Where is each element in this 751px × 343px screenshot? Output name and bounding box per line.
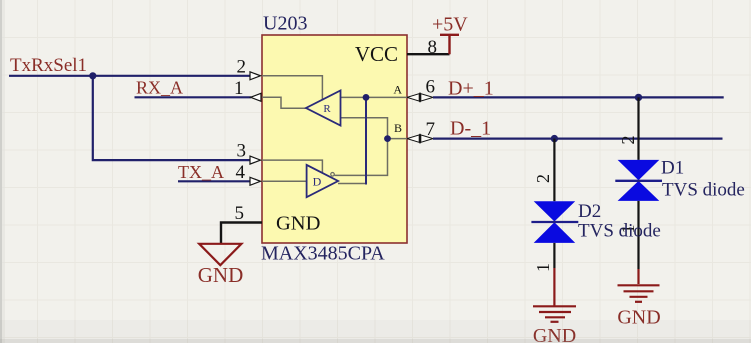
svg-text:R: R — [323, 103, 331, 115]
svg-text:D1: D1 — [661, 158, 684, 179]
svg-text:TVS diode: TVS diode — [662, 180, 745, 201]
pin 2 arrow — [250, 72, 261, 80]
svg-text:D2: D2 — [578, 201, 601, 222]
driver inverted output bubble — [331, 173, 335, 177]
TVS diode D1 symbol — [615, 160, 662, 201]
internal line pin1 to receiver output — [262, 97, 308, 108]
TVS diode D2 symbol — [531, 201, 578, 243]
wire TxRxSel1 — [9, 75, 250, 77]
ground symbol GND (D1) — [618, 285, 660, 302]
svg-text:1: 1 — [234, 78, 244, 99]
power port +5V bar symbol — [440, 35, 459, 54]
junction on TxRxSel1 wire — [89, 72, 96, 79]
pin 8 wire — [407, 53, 450, 55]
IC U203 body — [262, 35, 407, 243]
svg-text:TX_A: TX_A — [178, 162, 224, 182]
internal line receiver B input — [340, 118, 388, 139]
svg-text:6: 6 — [426, 77, 436, 98]
wire D-_1 — [433, 138, 723, 140]
svg-text:4: 4 — [236, 162, 246, 183]
pin 5 wire — [221, 223, 262, 244]
internal line pin4 to driver input — [262, 180, 307, 182]
internal line B to pin 7 — [388, 138, 408, 140]
svg-text:2: 2 — [237, 57, 247, 78]
svg-text:2: 2 — [618, 136, 638, 145]
svg-text:GND: GND — [198, 263, 244, 287]
internal junction B — [384, 135, 391, 142]
svg-text:7: 7 — [426, 119, 436, 140]
svg-text:B: B — [394, 121, 402, 135]
driver triangle D — [307, 165, 339, 197]
internal junction A — [363, 94, 370, 101]
internal line driver output to A — [338, 183, 367, 185]
wire D2 to D- — [553, 139, 555, 202]
internal line pin3 to driver enable — [262, 160, 322, 173]
junction D+ / D1 — [635, 94, 642, 101]
svg-text:+5V: +5V — [432, 14, 468, 36]
svg-text:1: 1 — [533, 263, 553, 272]
internal line driver inverted output to B — [335, 139, 388, 175]
svg-text:5: 5 — [235, 203, 245, 224]
ground symbol GND (pin 5) — [199, 244, 241, 265]
svg-text:3: 3 — [237, 141, 247, 162]
wire D+_1 — [433, 96, 724, 98]
svg-text:8: 8 — [428, 37, 438, 58]
wire D1 to ground — [637, 201, 639, 269]
svg-text:D+_1: D+_1 — [448, 78, 494, 100]
pin 3 arrow — [250, 156, 261, 164]
wire junction to pin 3 — [93, 76, 250, 160]
svg-text:TVS diode: TVS diode — [578, 221, 661, 242]
svg-text:RX_A: RX_A — [136, 78, 183, 98]
svg-text:2: 2 — [533, 174, 553, 183]
svg-text:VCC: VCC — [355, 42, 398, 66]
svg-text:TxRxSel1: TxRxSel1 — [10, 55, 87, 76]
svg-text:MAX3485CPA: MAX3485CPA — [261, 243, 385, 265]
receiver triangle R — [306, 91, 341, 126]
internal line receiver A input — [340, 96, 407, 98]
wire D2 to ground — [553, 243, 555, 268]
svg-text:U203: U203 — [263, 13, 307, 35]
svg-text:GND: GND — [276, 213, 320, 235]
svg-text:A: A — [393, 83, 402, 97]
pin 4 arrow — [250, 177, 261, 185]
pin 1 arrow — [251, 93, 262, 101]
wire D1 to D+ — [637, 97, 639, 159]
junction D- / D2 — [551, 135, 558, 142]
pin 6 bidirectional arrow — [407, 94, 433, 101]
svg-text:D: D — [313, 175, 322, 189]
wire RX_A — [135, 96, 252, 98]
internal line pin2 to receiver enable — [262, 76, 322, 101]
ground symbol GND (D2) — [533, 306, 576, 322]
svg-text:D-_1: D-_1 — [450, 118, 491, 140]
pin 7 bidirectional arrow — [407, 135, 433, 142]
wire TX_A — [178, 180, 250, 182]
